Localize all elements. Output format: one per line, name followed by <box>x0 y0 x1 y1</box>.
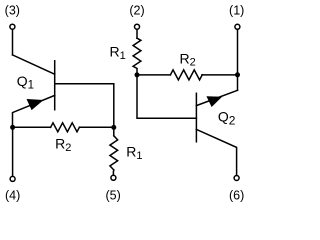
svg-text:Q2: Q2 <box>218 108 236 127</box>
transistor Q2 collector diagonal <box>196 129 236 175</box>
wire node C to R2 <box>137 74 170 76</box>
node A (emitter/R2 junction) <box>10 125 15 130</box>
wire node D down to emitter bend <box>237 75 239 91</box>
svg-text:R1: R1 <box>126 143 142 161</box>
transistor Q1 base bar <box>54 61 56 110</box>
terminal (6) <box>234 176 239 181</box>
svg-text:R2: R2 <box>55 136 71 154</box>
wire node B to R1 <box>113 127 115 135</box>
svg-text:(2): (2) <box>129 4 144 18</box>
resistor R1 (right) <box>133 38 141 68</box>
transistor Q2 emitter arrow (pointing away from base) <box>207 97 222 107</box>
node B (base/R1/R2 junction) <box>111 125 116 130</box>
node C (base/R1/R2 junction) <box>135 72 140 77</box>
resistor R2 (left) <box>51 123 80 132</box>
svg-text:(5): (5) <box>105 188 120 202</box>
transistor Q1 emitter diagonal <box>13 95 55 126</box>
wire R1 to terminal (5) <box>112 170 114 175</box>
terminal (4) <box>10 176 15 181</box>
wire node C to Q2 base <box>137 75 196 118</box>
resistor R2 (right) <box>170 70 202 80</box>
terminal (5) <box>111 175 116 180</box>
wire R2 to node D <box>202 74 238 76</box>
node D (emitter junction) <box>235 72 240 77</box>
wire Q1 base to node B <box>55 84 113 126</box>
wire (3) to collector bend <box>12 30 14 55</box>
svg-text:(1): (1) <box>229 4 244 18</box>
svg-text:R1: R1 <box>110 44 126 62</box>
wire collector diagonal <box>13 55 55 74</box>
wire node A to R2 <box>13 126 51 128</box>
terminal (2) <box>135 24 140 29</box>
transistor Q2 base bar <box>195 93 197 142</box>
svg-text:(4): (4) <box>5 188 20 202</box>
svg-text:(6): (6) <box>229 188 244 202</box>
terminal (1) <box>235 24 240 29</box>
resistor R1 (left) <box>110 136 118 170</box>
svg-text:Q1: Q1 <box>17 73 34 92</box>
svg-text:(3): (3) <box>5 4 20 18</box>
wire (2) to R1 <box>136 30 138 38</box>
transistor Q2 emitter diagonal <box>196 90 237 105</box>
wire node A to terminal (4) <box>12 127 14 175</box>
svg-text:R2: R2 <box>180 50 196 68</box>
transistor Q1 emitter arrow (PNP, pointing into base) <box>27 99 43 109</box>
terminal (3) <box>10 24 15 29</box>
wire R2 to node B <box>79 126 113 128</box>
wire R1 to node C <box>136 70 138 75</box>
wire node D to terminal (1) <box>237 30 239 75</box>
